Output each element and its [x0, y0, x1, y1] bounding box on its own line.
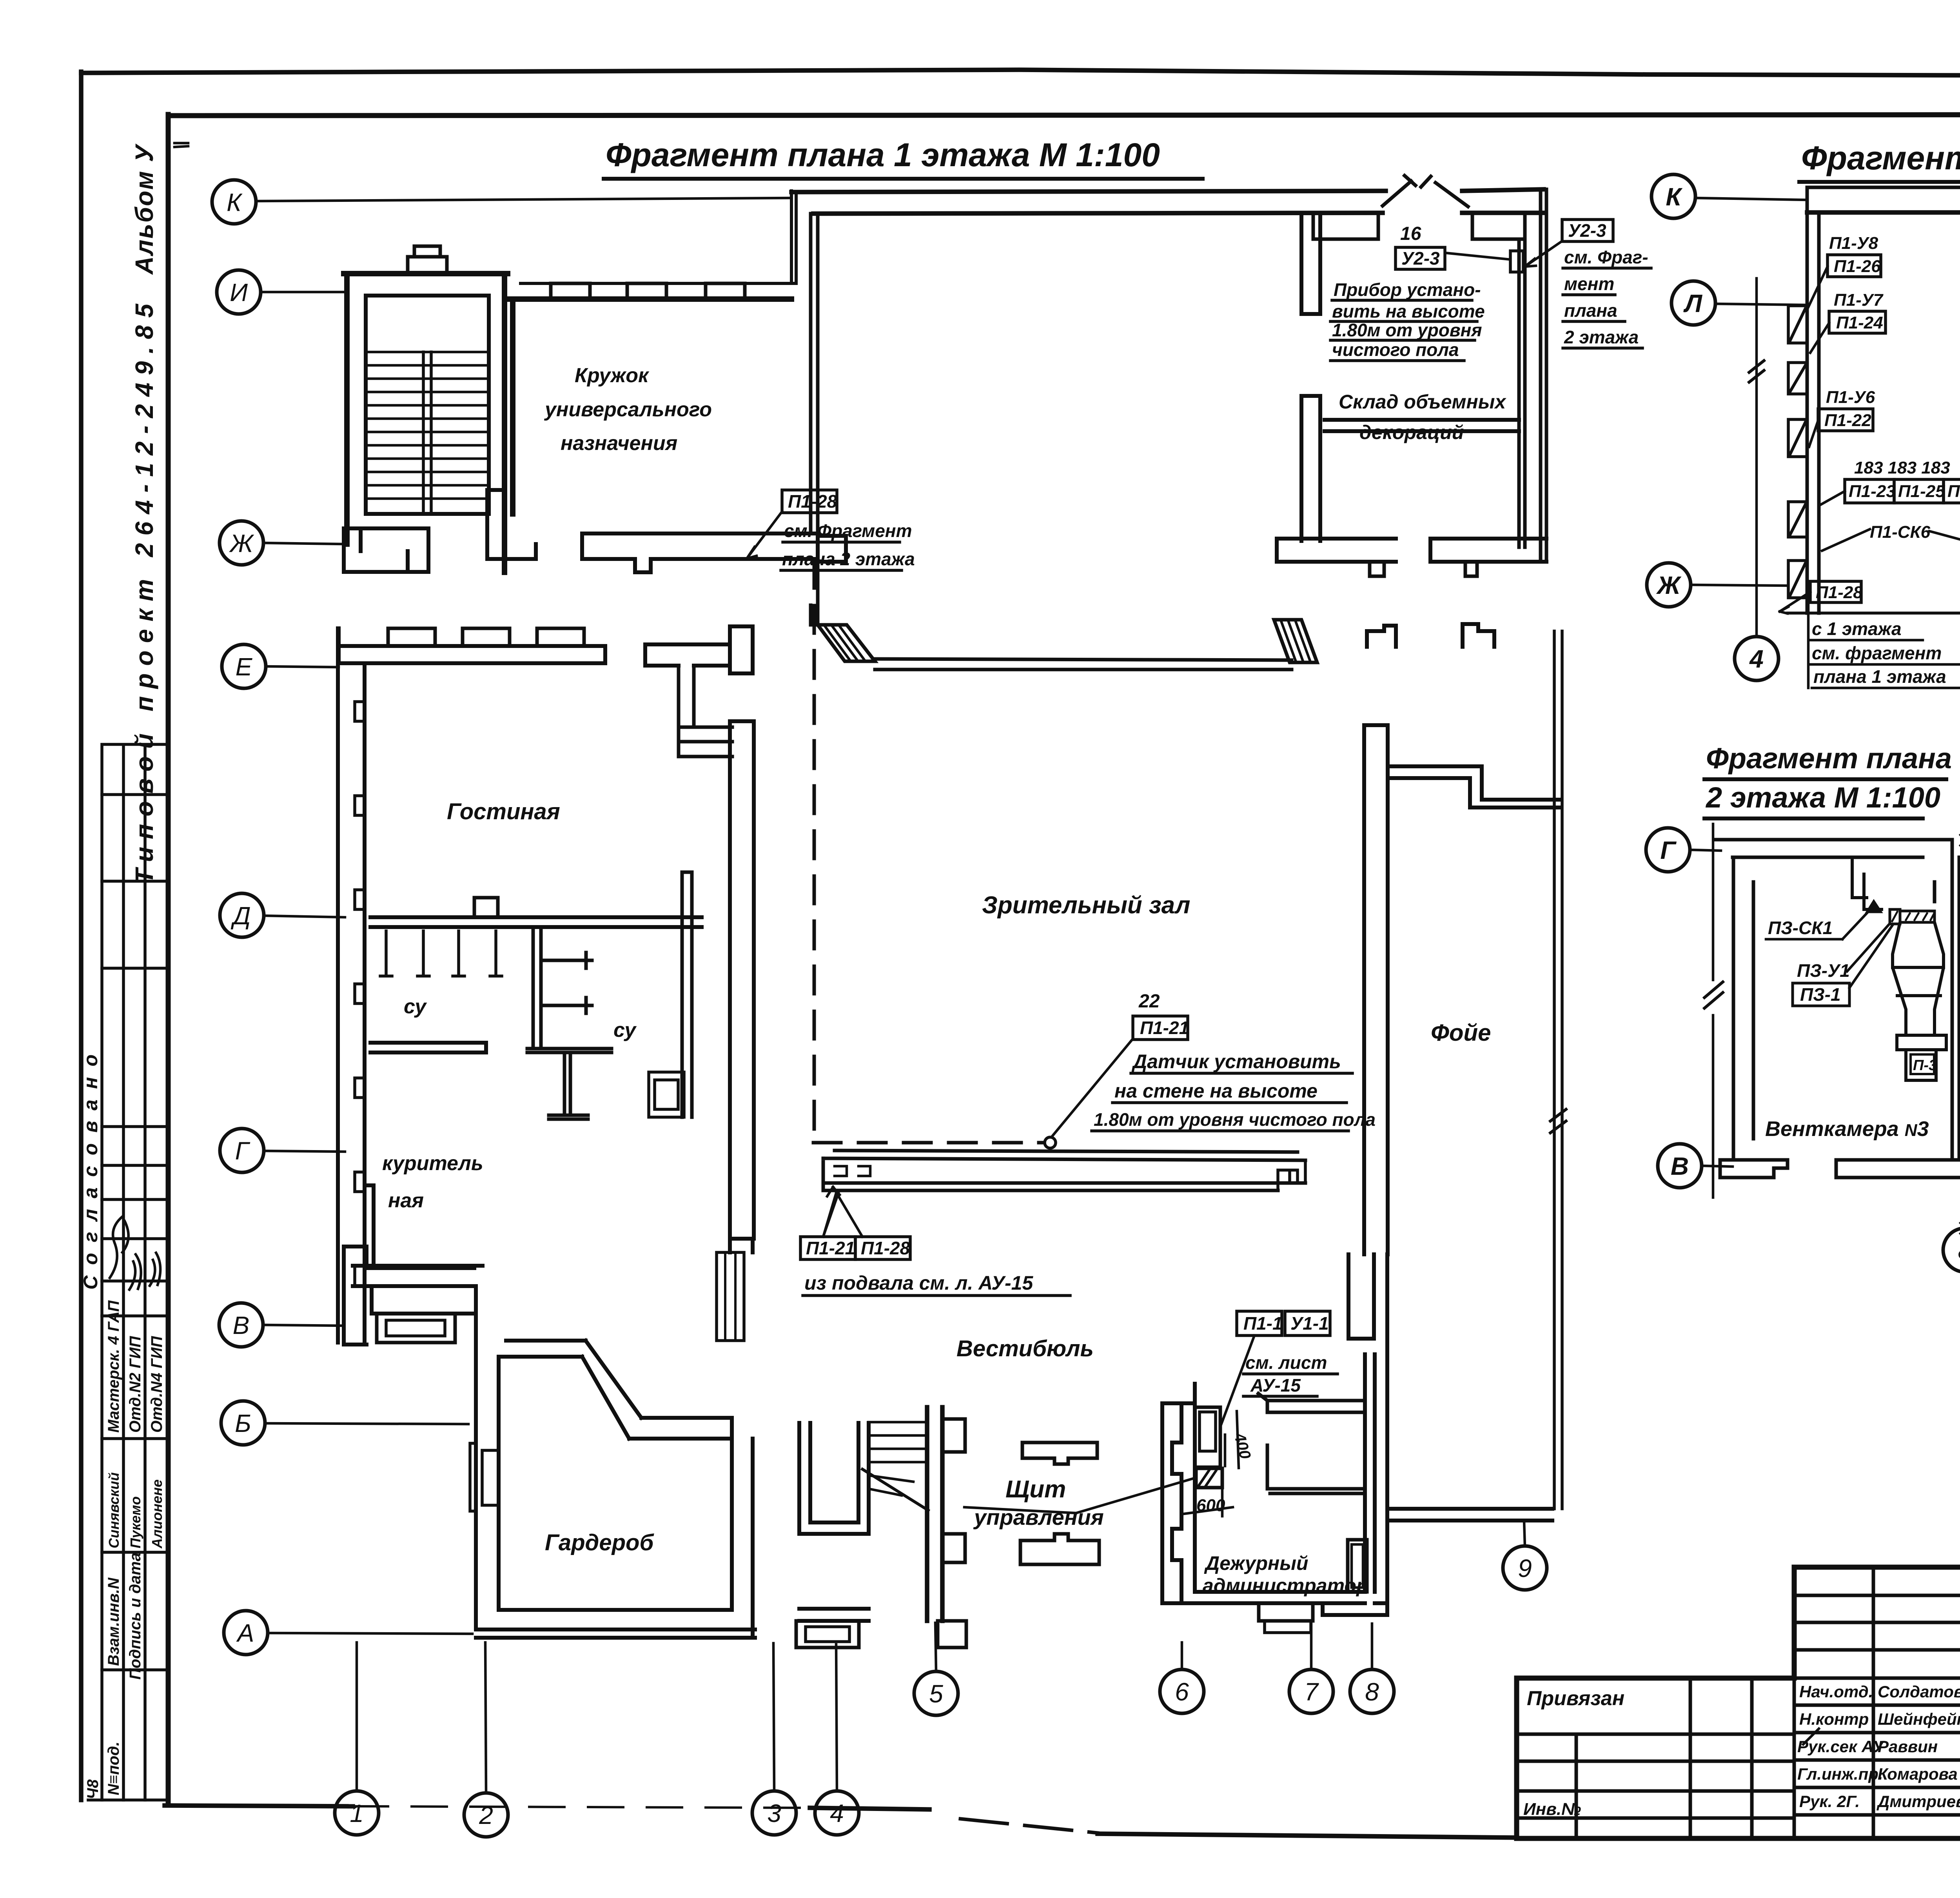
foyer right window wall — [1554, 631, 1562, 1509]
svg-text:2 этажа М 1:100: 2 этажа М 1:100 — [1705, 781, 1940, 814]
svg-text:П1-23: П1-23 — [1849, 482, 1896, 501]
svg-text:ПЗ-1: ПЗ-1 — [1800, 984, 1841, 1005]
svg-text:Б: Б — [235, 1409, 251, 1437]
svg-text:Склад объемных: Склад объемных — [1339, 391, 1506, 413]
svg-text:4: 4 — [830, 1799, 844, 1827]
left exterior wall of gostinaya block — [338, 628, 365, 1343]
label 16 / U2-3 note (storage) — [1330, 223, 1523, 361]
svg-text:У2-3: У2-3 — [1401, 248, 1440, 269]
plan2 bottom section line with break — [1788, 596, 1960, 630]
axis Zh2 bubble — [1647, 563, 1691, 607]
svg-text:К: К — [227, 188, 243, 216]
svg-text:2 этажа: 2 этажа — [1564, 327, 1639, 347]
dezhurny inner cabinet — [1348, 1540, 1367, 1592]
outer right wall to foyer — [1541, 189, 1546, 559]
vestibule bottom wall and porch — [799, 1609, 869, 1621]
svg-text:Фрагмент плана 1 этажа М: Фрагмент плана 1 этажа М 1:100 — [606, 136, 1160, 173]
stair treads — [366, 352, 489, 499]
svg-text:Нач.отд.: Нач.отд. — [1799, 1682, 1873, 1701]
sensor triangle SK1 — [1867, 901, 1881, 912]
dim 600 — [1184, 1490, 1233, 1520]
svg-text:плана: плана — [1564, 300, 1617, 321]
kuritelnaya lower walls — [353, 1185, 483, 1314]
middle section small rows — [1794, 1567, 1960, 1838]
svg-text:Г: Г — [235, 1137, 250, 1165]
svg-text:П1-У6: П1-У6 — [1826, 388, 1875, 407]
E axis wall right piece with T-bar — [645, 626, 753, 673]
plan3 top wall — [1715, 840, 1952, 857]
garderob walls — [476, 1339, 755, 1638]
vestibule stair treads — [869, 1422, 927, 1495]
svg-text:мент: мент — [1564, 274, 1614, 294]
svg-text:ная: ная — [388, 1189, 424, 1212]
Zh axis wall left piece — [344, 528, 428, 572]
svg-text:ПЗ-У1: ПЗ-У1 — [1797, 960, 1850, 981]
window in foyer-vestibule wall — [717, 1252, 744, 1341]
svg-text:П1-У8: П1-У8 — [1829, 234, 1878, 253]
svg-text:Привязан: Привязан — [1527, 1687, 1624, 1710]
label 22 / P1-21 sensor note — [1052, 991, 1376, 1137]
corridor bottom wall to bubble 9 — [1391, 1509, 1552, 1521]
radiators on left wall — [1788, 306, 1807, 598]
stage left hatched wedge — [818, 625, 875, 661]
svg-text:2: 2 — [479, 1801, 493, 1829]
axis 2 — [464, 1793, 508, 1837]
stair wall pilaster bumps — [942, 1419, 965, 1562]
axis E — [222, 644, 266, 688]
axis G bubble plan3 — [1646, 828, 1690, 872]
plan2 left wall — [1807, 187, 1819, 613]
svg-text:1.80м от уровня: 1.80м от уровня — [1332, 320, 1482, 340]
svg-text:N≡под.: N≡под. — [105, 1742, 122, 1795]
svg-text:Фойе: Фойе — [1431, 1020, 1491, 1046]
svg-text:вить на высоте: вить на высоте — [1332, 301, 1485, 321]
approval table lower — [102, 744, 169, 1800]
label P1-21 P1-28 from basement — [800, 1187, 1070, 1296]
stair diagonal cut — [862, 1469, 928, 1510]
radiator under T-bar — [679, 666, 732, 757]
kruzhok room left wall — [510, 299, 515, 514]
left margin stamp strip — [80, 143, 188, 1800]
stair right wall — [927, 1407, 942, 1621]
svg-text:декораций: декораций — [1359, 421, 1464, 443]
svg-text:П1-У7: П1-У7 — [1834, 290, 1884, 310]
su stall partitions — [380, 931, 502, 976]
porch right of stair — [938, 1621, 966, 1648]
svg-text:Л: Л — [1683, 289, 1703, 318]
storage window right — [1472, 213, 1525, 239]
label P1-1 U1-1 panel note — [1220, 1311, 1338, 1427]
svg-text:5: 5 — [929, 1680, 943, 1708]
axis G — [220, 1129, 264, 1172]
svg-text:Фрагмент плана 2 этажа М: Фрагмент плана 2 этажа М 1:100 — [1801, 140, 1960, 176]
fan cone body — [1893, 922, 1944, 1035]
svg-text:8: 8 — [1958, 1236, 1960, 1265]
svg-text:куритель: куритель — [382, 1152, 483, 1175]
stage corner wall — [811, 214, 818, 625]
svg-text:Комарова: Комарова — [1878, 1765, 1958, 1783]
plan3 left wall — [1733, 857, 1753, 1160]
hatched floor box — [1196, 1468, 1222, 1488]
svg-text:У1-1: У1-1 — [1290, 1313, 1329, 1334]
axis 4 bubble and line — [1735, 637, 1779, 680]
light truss assembly — [823, 1150, 1305, 1190]
svg-text:Дмитриева: Дмитриева — [1877, 1792, 1960, 1811]
door leaves at storage entry — [1383, 176, 1468, 207]
svg-text:Зрительный зал: Зрительный зал — [982, 892, 1190, 919]
Zh axis long wall — [582, 533, 818, 572]
svg-text:на стене на высоте: на стене на высоте — [1114, 1080, 1318, 1102]
storage left T wall — [1301, 213, 1320, 314]
svg-text:Гостиная: Гостиная — [447, 799, 560, 824]
svg-text:6: 6 — [1175, 1678, 1189, 1706]
svg-text:П-3: П-3 — [1913, 1057, 1937, 1074]
axis 8 bubble plan3 — [1943, 1228, 1960, 1272]
dezhurny bottom wall — [1195, 1592, 1365, 1603]
storage left wall lower leg — [1301, 396, 1320, 541]
svg-text:П1-21: П1-21 — [806, 1238, 855, 1258]
control panel cabinet — [1195, 1407, 1220, 1467]
svg-text:см. фрагмент: см. фрагмент — [1812, 643, 1942, 663]
svg-text:9: 9 — [1518, 1554, 1532, 1582]
Zh axis L wall — [487, 490, 536, 559]
axis 8 — [1350, 1669, 1394, 1713]
svg-text:Подпись и дата: Подпись и дата — [127, 1553, 144, 1680]
stairwell outer walls — [344, 274, 508, 572]
plan2 upper wall — [1807, 210, 1960, 215]
svg-text:Щит: Щит — [1005, 1476, 1066, 1503]
fan foot plate — [1897, 1035, 1946, 1050]
left label stack — [1826, 234, 1950, 542]
shield panel furniture upper — [1022, 1443, 1097, 1464]
dezhurny interior counter — [1267, 1445, 1365, 1493]
columns at stage front — [1367, 626, 1396, 647]
auditorium left wall — [730, 721, 754, 1239]
title block outline — [1517, 1567, 1960, 1838]
svg-text:Солдатов: Солдатов — [1878, 1682, 1960, 1701]
kruzhok window 2 — [627, 283, 666, 299]
svg-text:администратор: администратор — [1203, 1575, 1368, 1597]
column bump — [1465, 562, 1477, 576]
svg-text:Ч8: Ч8 — [84, 1779, 102, 1799]
axis V bubble plan3 — [1658, 1144, 1702, 1188]
svg-text:из подвала см. л. АУ-15: из подвала см. л. АУ-15 — [804, 1272, 1033, 1294]
axis 1 — [335, 1791, 379, 1835]
P-3 label box — [1911, 1054, 1934, 1074]
svg-text:назначения: назначения — [561, 432, 677, 455]
label U2-3 second note right — [1525, 220, 1651, 348]
grid axis bubbles plan 1 — [212, 180, 1547, 1837]
svg-text:П1-СК6: П1-СК6 — [1870, 523, 1931, 542]
svg-text:Ж: Ж — [229, 529, 254, 557]
gostinaya inner wall (D axis) — [370, 917, 702, 927]
svg-text:8: 8 — [1365, 1678, 1379, 1706]
svg-text:Отд.N4 ГИП: Отд.N4 ГИП — [148, 1335, 165, 1433]
storage top wall right of door — [1462, 189, 1544, 213]
stage right hatched wedge — [1274, 620, 1317, 662]
storage internal wall — [1325, 420, 1519, 431]
svg-text:плана 1 этажа: плана 1 этажа — [1813, 666, 1946, 687]
svg-text:П1-28: П1-28 — [861, 1238, 910, 1258]
wall from K-axis wall down to kruzhok — [521, 191, 796, 283]
svg-text:Кружок: Кружок — [575, 364, 650, 387]
svg-text:И: И — [230, 278, 248, 307]
plan3 left bottom foot — [1720, 1160, 1788, 1178]
E axis crenellated wall (Gostinaya top) — [339, 628, 605, 663]
svg-text:Прибор устано-: Прибор устано- — [1334, 279, 1481, 300]
signature names — [1797, 1682, 1960, 1811]
svg-text:В: В — [1671, 1152, 1689, 1180]
svg-text:см. Фраг-: см. Фраг- — [1564, 247, 1648, 267]
svg-text:1.80м от уровня чистого пола: 1.80м от уровня чистого пола — [1094, 1109, 1376, 1130]
svg-text:Фрагмент плана: Фрагмент плана — [1706, 742, 1952, 775]
svg-text:П1-27: П1-27 — [1947, 482, 1960, 501]
label P1-28 with leader (Zh wall) — [747, 490, 915, 570]
svg-text:ПЗ-СК1: ПЗ-СК1 — [1768, 918, 1833, 938]
P1-28 from first floor note — [1810, 581, 1861, 602]
sheet outer border bottom — [165, 1805, 353, 1806]
svg-text:Синявский: Синявский — [106, 1472, 122, 1548]
corridor wall right of SU — [682, 872, 692, 1117]
axis 7 — [1289, 1669, 1333, 1713]
svg-text:У2-3: У2-3 — [1568, 220, 1606, 241]
svg-text:П1-28: П1-28 — [1816, 583, 1863, 602]
svg-text:Рук.сек АУ: Рук.сек АУ — [1797, 1737, 1885, 1756]
sensor symbol — [1045, 1137, 1056, 1148]
axis 5 — [914, 1671, 958, 1715]
pilaster notches on exterior wall — [355, 702, 365, 1286]
kruzhok window 1 — [551, 283, 590, 299]
axis D — [220, 893, 264, 937]
approval table upper — [102, 744, 169, 1316]
svg-text:Е: Е — [236, 653, 253, 681]
svg-text:Раввин: Раввин — [1878, 1737, 1938, 1756]
axis K2 bubble — [1651, 174, 1695, 218]
svg-text:П1-1: П1-1 — [1243, 1313, 1283, 1334]
axis V — [219, 1303, 263, 1347]
dashed equipment line horizontal — [813, 1141, 1043, 1145]
svg-text:Отд.N2 ГИП: Отд.N2 ГИП — [127, 1335, 144, 1433]
svg-text:А: А — [236, 1619, 254, 1647]
svg-text:Инв.№: Инв.№ — [1523, 1800, 1581, 1819]
svg-text:П1-21: П1-21 — [1140, 1018, 1189, 1038]
svg-text:Гардероб: Гардероб — [545, 1530, 654, 1555]
vestibule corridor wall diagonal — [506, 1341, 732, 1439]
plan3 bottom right wall — [1836, 1160, 1959, 1178]
stage front edge line — [875, 659, 1292, 670]
svg-text:Ж: Ж — [1656, 571, 1682, 599]
svg-text:Н.контр: Н.контр — [1799, 1710, 1869, 1728]
device box U1 — [1890, 909, 1900, 924]
sheet outer border top — [81, 70, 1960, 77]
upper duct walls inside — [1852, 857, 1882, 909]
svg-text:П1-26: П1-26 — [1834, 257, 1881, 276]
svg-text:Дежурный: Дежурный — [1204, 1552, 1308, 1574]
svg-text:П1-24: П1-24 — [1836, 313, 1883, 332]
toilet fixtures — [649, 1072, 684, 1117]
column bump — [1370, 562, 1384, 576]
signature scribbles — [1803, 1680, 1960, 1803]
svg-text:4: 4 — [1749, 645, 1764, 673]
svg-text:с 1 этажа: с 1 этажа — [1812, 619, 1902, 639]
vestibule left wall (garderob right wall upper) — [474, 1286, 478, 1339]
axis 3 — [752, 1791, 796, 1835]
stairwell top window — [408, 257, 447, 274]
storage window left — [1313, 213, 1378, 239]
sheet outer border left — [79, 72, 83, 1800]
break mark on window wall — [1550, 1109, 1566, 1133]
axis Zh — [220, 521, 263, 565]
leader from shield text to panel — [964, 1478, 1196, 1513]
svg-text:су: су — [404, 995, 427, 1018]
svg-text:В: В — [233, 1311, 250, 1339]
svg-text:183 183 183: 183 183 183 — [1854, 458, 1950, 477]
storage room right wall — [1519, 239, 1525, 547]
svg-text:600: 600 — [1196, 1496, 1225, 1515]
signatures upper — [110, 1216, 129, 1278]
stair stringers — [423, 352, 431, 514]
svg-text:Венткамера N3: Венткамера N3 — [1765, 1117, 1929, 1141]
svg-text:П1-22: П1-22 — [1824, 411, 1871, 430]
left section grid — [1517, 1678, 1794, 1838]
svg-text:Гл.инж.пр.: Гл.инж.пр. — [1797, 1765, 1883, 1783]
svg-text:Рук. 2Г.: Рук. 2Г. — [1799, 1792, 1860, 1811]
drawing frame left — [166, 114, 171, 1803]
proscenium step walls — [1388, 766, 1560, 807]
axis A — [224, 1611, 268, 1655]
outer corridor wall right of dezhurny — [1323, 1254, 1387, 1615]
svg-text:П1-25: П1-25 — [1898, 482, 1945, 501]
svg-text:чистого пола: чистого пола — [1332, 339, 1459, 360]
left axis line with break — [1712, 824, 1715, 1198]
auditorium top wall double line — [791, 191, 1386, 214]
dashed equipment line vertical — [813, 561, 816, 1143]
shield panel furniture lower — [1020, 1534, 1099, 1564]
vestibule-foyer wall — [730, 1239, 753, 1252]
svg-text:16: 16 — [1400, 223, 1421, 244]
dezhurny room top wall — [1162, 1384, 1195, 1592]
axis L bubble — [1671, 281, 1715, 325]
plan3 right wall — [1935, 840, 1959, 1160]
axis I — [217, 270, 261, 314]
svg-text:см. лист: см. лист — [1245, 1352, 1327, 1373]
kruzhok window 3 — [706, 283, 745, 299]
leaders from P1-21 P1-28 boxes up to truss — [823, 1190, 837, 1237]
vestibule stair U-shape — [799, 1423, 869, 1534]
axis B — [221, 1401, 265, 1445]
fan grille P3 — [1900, 911, 1935, 922]
axis 6 — [1160, 1669, 1204, 1713]
dezhurny top shelf — [1258, 1394, 1365, 1412]
axis K — [212, 180, 256, 224]
Zh axis right end piece — [818, 536, 846, 562]
svg-text:Г: Г — [1660, 836, 1677, 864]
Zh-axis wall below storage left — [1277, 539, 1396, 562]
svg-text:Д: Д — [230, 902, 250, 930]
axis 4 — [815, 1791, 859, 1835]
svg-text:Пукемо: Пукемо — [127, 1496, 143, 1548]
kuritelnaya wall — [370, 1043, 486, 1052]
svg-text:1: 1 — [350, 1799, 364, 1827]
dim 400 tick — [1225, 1411, 1239, 1468]
svg-text:Датчик установить: Датчик установить — [1131, 1051, 1341, 1072]
dezhurny room outer left wall — [1162, 1403, 1195, 1603]
svg-text:22: 22 — [1138, 991, 1160, 1012]
svg-text:Мастерск. 4 ГАП: Мастерск. 4 ГАП — [105, 1300, 122, 1433]
vestibule-foyer wall upper part — [1348, 1254, 1374, 1339]
drawing frame top — [168, 114, 1960, 116]
svg-text:3: 3 — [767, 1799, 781, 1827]
svg-text:су: су — [613, 1019, 637, 1042]
B axis entrance porch — [344, 1247, 474, 1345]
dezhurny porch — [1259, 1603, 1313, 1621]
svg-text:универсального: универсального — [544, 398, 712, 421]
foyer left wall — [1364, 725, 1388, 1254]
svg-text:К: К — [1666, 183, 1682, 211]
kruzhok room top wall — [508, 296, 791, 302]
svg-text:АУ-15: АУ-15 — [1250, 1375, 1301, 1395]
porch steps left entrance — [377, 1314, 455, 1343]
fan bottom box — [1906, 1050, 1936, 1080]
svg-text:Шейнфейн: Шейнфейн — [1878, 1710, 1960, 1728]
svg-text:Взам.инв.N: Взам.инв.N — [105, 1577, 122, 1666]
garderob door notch — [470, 1443, 499, 1511]
svg-text:7: 7 — [1304, 1678, 1319, 1706]
svg-text:см. Фрагмент: см. Фрагмент — [784, 521, 912, 541]
Zh-axis wall below storage right — [1430, 539, 1546, 562]
axis leader lines plan1 — [256, 198, 1525, 1793]
svg-text:Алионене: Алионене — [149, 1479, 165, 1549]
stair interior core — [366, 296, 489, 514]
su dividing walls — [533, 927, 592, 1049]
dezhurny right wall — [1365, 1354, 1375, 1592]
svg-text:П1-28: П1-28 — [788, 491, 837, 512]
svg-text:плана 2 этажа: плана 2 этажа — [782, 549, 915, 569]
axis 9 — [1503, 1546, 1547, 1590]
svg-text:Вестибюль: Вестибюль — [956, 1336, 1094, 1361]
plan2 top thin wall — [1807, 186, 1960, 189]
